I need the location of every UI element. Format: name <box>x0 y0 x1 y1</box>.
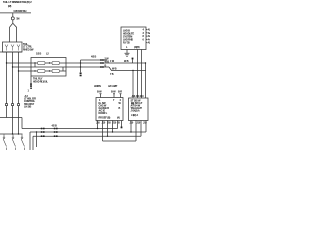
pin stub E right 1 <box>146 29 148 31</box>
svg-text:(M): (M) <box>8 5 12 8</box>
wire box E pin down 1 <box>137 50 139 99</box>
junction dot <box>18 70 19 71</box>
relay coil K4 <box>52 69 60 72</box>
junction dot <box>130 131 131 132</box>
wire fork to two branches <box>10 23 13 42</box>
pin stub E right 2 <box>146 32 148 34</box>
wire bus 1 <box>22 128 118 130</box>
svg-text:R.I-T.B: R.I-T.B <box>123 41 130 44</box>
switch SW2 <box>12 134 14 137</box>
pin box C top 2 <box>113 94 115 98</box>
svg-text:HORN: HORN <box>94 85 101 88</box>
wire bend down to 70.5 <box>109 67 146 71</box>
wire corner drop <box>21 118 23 129</box>
junction dot <box>107 136 108 137</box>
wire bus 2 left corner <box>29 132 31 150</box>
node label 1 <box>28 89 30 92</box>
connector tick on bus 3 <box>18 104 20 106</box>
node box C text <box>99 99 122 120</box>
junction dot <box>6 62 7 63</box>
wire relay link 2 <box>62 67 64 71</box>
wire vertical bus 2 <box>12 52 14 134</box>
node connector label 4/2 B <box>91 56 96 59</box>
switch SW3 <box>21 134 23 137</box>
connector C5 squares row67 <box>100 66 102 68</box>
junction dot <box>112 131 113 132</box>
svg-text:(4): (4) <box>117 117 120 120</box>
svg-text:W-B: W-B <box>105 60 110 63</box>
relay box U1 <box>31 58 66 77</box>
connector C7 squares bus1 <box>41 128 43 130</box>
wire relay output row 1 <box>66 62 146 64</box>
wire branch to relay box row 1 <box>7 62 32 64</box>
relay coil K3 <box>38 69 46 72</box>
wire box E ground pin <box>126 50 128 54</box>
node pin color labels <box>97 91 122 94</box>
connector J1 <box>11 17 14 20</box>
connector end mark <box>30 88 32 90</box>
junction dot <box>80 66 81 67</box>
node box E text <box>123 29 140 49</box>
pin box C top 1 <box>100 94 102 98</box>
node wire label 1 W <box>110 60 129 63</box>
wire box C drop 1 <box>97 121 99 129</box>
svg-text:DOOR L: DOOR L <box>99 112 108 115</box>
wire bus 3 left corner <box>32 136 34 150</box>
wire vertical bus 1 <box>6 52 8 118</box>
relay coil K1 <box>38 61 46 64</box>
headlight control unit box E <box>121 27 146 50</box>
wire right fork branch <box>13 23 17 42</box>
connector C7 squares bus3 <box>41 135 43 137</box>
wire bus 4 <box>103 140 137 142</box>
junction dot <box>80 62 81 63</box>
junction dot <box>145 62 146 63</box>
lamp L3 <box>17 45 20 51</box>
junction dot <box>34 62 35 63</box>
node wire label W-B / 7 B <box>110 67 117 75</box>
wire box C drop 5 <box>117 121 119 129</box>
svg-text:J10 J10 J10: J10 J10 J10 <box>132 95 145 98</box>
switch SW1 <box>3 134 5 137</box>
svg-text:1M: 1M <box>16 17 19 20</box>
svg-text:B-R: B-R <box>118 91 122 94</box>
svg-text:2.0L: 2.0L <box>44 80 49 83</box>
wire from left edge to dimmer feed <box>0 13 31 17</box>
node pin labels E <box>148 29 152 45</box>
wire box D drop 1 <box>130 121 132 133</box>
svg-text:LH S/B: LH S/B <box>24 105 31 108</box>
wire relay row 2 <box>31 66 66 68</box>
svg-text:A/C AMP: A/C AMP <box>108 85 118 88</box>
node wire labels <box>105 57 110 67</box>
junction dot <box>97 128 98 129</box>
svg-text:(4)(B): (4)(B) <box>134 46 140 49</box>
wire branch to relay box row 3 <box>19 70 32 72</box>
node box D text <box>131 95 145 117</box>
svg-text:RHEO 5W: RHEO 5W <box>23 48 34 51</box>
node labels above relay box <box>36 53 49 56</box>
svg-text:1/2 B: 1/2 B <box>36 53 41 56</box>
connector C2 squares <box>30 83 32 85</box>
wire box D drop 3 <box>140 121 142 137</box>
pin stub E right 5 <box>146 42 148 44</box>
pin box C top 3 <box>120 94 122 98</box>
wire relay link 1 <box>34 63 36 67</box>
wire vertical bus 3 <box>18 52 20 134</box>
wire riser-drop column <box>80 60 82 72</box>
junction block box C <box>96 98 123 121</box>
junction dot <box>132 70 133 71</box>
wire box E pin down 2 <box>141 50 143 99</box>
node pin labels under box C <box>96 121 120 124</box>
wire relay output row 2 <box>66 66 109 68</box>
junction dot <box>18 133 19 134</box>
ground <box>125 53 130 56</box>
connector C7 squares bus2 <box>41 131 43 133</box>
svg-text:4/2 B: 4/2 B <box>91 56 96 59</box>
illumination lamp box A <box>3 42 23 52</box>
lamp L2 <box>11 45 14 51</box>
connector tick on bus 1 <box>6 104 8 106</box>
svg-text:W-B: W-B <box>112 67 117 70</box>
wire box D drop 2 <box>135 121 137 142</box>
connector C6 squares bus3 <box>54 135 56 137</box>
wire bus 2 <box>30 131 146 133</box>
connector C6 squares bus2 <box>54 131 56 133</box>
node headlight control text block <box>24 95 36 108</box>
pin stub E right 4 <box>146 38 148 40</box>
node connector label 4/2 B bottom <box>52 124 57 127</box>
node box A label <box>23 43 34 52</box>
node wire label 0.85 R/W <box>14 10 27 13</box>
wire box D drop 4 <box>145 121 147 133</box>
node pin labels under box D <box>130 121 148 124</box>
light control switch box F <box>0 133 23 135</box>
node relay box caption <box>33 77 48 83</box>
wire bus 3 <box>33 135 141 137</box>
wire relay row 3 <box>31 70 66 72</box>
node box D dark mark <box>131 102 134 104</box>
svg-text:RR DEF (B): RR DEF (B) <box>99 117 111 120</box>
wire top-left lower bus <box>0 117 22 119</box>
wire branch to relay box row 2 <box>13 66 32 68</box>
lamp L1 <box>5 45 8 51</box>
svg-text:TAIL LT DIMMER SW (B) 2: TAIL LT DIMMER SW (B) 2 <box>3 0 32 4</box>
connector C3 squares <box>80 73 82 75</box>
node ILLUM header text <box>3 0 32 8</box>
connector C5 squares row60 <box>100 59 102 61</box>
svg-text:0.85 R/W RH: 0.85 R/W RH <box>14 10 27 13</box>
wire relay row 1 <box>31 62 66 64</box>
wire box C drop 3 <box>107 121 109 137</box>
wire stub row 60 <box>81 59 108 61</box>
wire box C drop 2 <box>102 121 104 142</box>
svg-text:W-B: W-B <box>124 60 129 63</box>
node pin numbers inside E <box>143 29 145 42</box>
junction dot <box>49 70 50 71</box>
junction dot <box>12 66 13 67</box>
relay coil K2 <box>52 61 60 64</box>
node component names above box C <box>94 85 118 88</box>
connector C6 squares bus1 <box>54 128 56 130</box>
wire below connector <box>12 20 14 23</box>
wire bottom feed to left edge <box>0 51 22 53</box>
connector C5 squares row63 <box>100 62 102 64</box>
wire drop from bus 2 <box>36 131 37 132</box>
svg-text:J 6X(2) A: J 6X(2) A <box>131 110 140 113</box>
junction dot <box>49 62 50 63</box>
svg-text:I-4(2) A: I-4(2) A <box>131 114 138 117</box>
wire from row70.5 down to box D <box>132 71 134 99</box>
wire from row63 down to box D <box>145 63 147 98</box>
svg-text:7 B: 7 B <box>110 73 114 76</box>
junction dot <box>12 133 13 134</box>
junction block box D <box>129 98 149 121</box>
pin stub E right 3 <box>146 35 148 37</box>
pin dangling with square <box>121 121 123 127</box>
svg-text:4/2 B: 4/2 B <box>52 124 57 127</box>
connector stub on wire 63 <box>132 60 134 64</box>
wire box C drop 4 <box>112 121 114 133</box>
junction dot <box>34 70 35 71</box>
connector tick on bus 2 <box>12 104 14 106</box>
svg-text:A5: A5 <box>148 42 150 45</box>
wire relay box ground stub <box>30 76 32 83</box>
